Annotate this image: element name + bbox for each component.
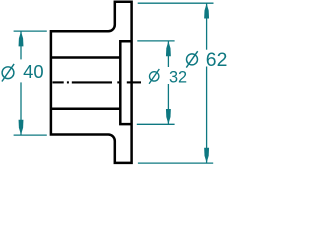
extension line bottom [137, 123, 175, 125]
extension line top [14, 30, 47, 32]
arrowhead Ø62 bottom [204, 148, 209, 163]
arrowhead Ø32 bottom [166, 109, 171, 124]
dimension line upper segment [167, 41, 169, 67]
arrowhead Ø62 top [204, 4, 209, 19]
dimension line lower segment [167, 84, 169, 124]
extension line top [137, 40, 174, 42]
extension line top [138, 2, 214, 4]
extension line bottom [14, 134, 47, 136]
arrowhead Ø32 top [166, 41, 171, 56]
arrowhead Ø40 top [19, 31, 24, 46]
dimension Ø32 [137, 41, 175, 124]
dimension line lower segment [20, 82, 22, 135]
label Ø62 [186, 51, 197, 67]
dimension line upper segment [206, 3, 208, 50]
label Ø40 [2, 64, 14, 82]
dimension line lower segment [206, 67, 208, 164]
svg-text:62: 62 [206, 49, 228, 71]
dimension Ø40 [14, 31, 47, 135]
svg-text:32: 32 [169, 68, 187, 86]
svg-text:40: 40 [23, 61, 43, 82]
label Ø32 [149, 69, 159, 84]
body and flange outline [51, 2, 132, 163]
centerline [53, 81, 142, 83]
dimension Ø62 [138, 3, 214, 163]
bore line lower [51, 108, 120, 111]
dimension line upper segment [20, 31, 22, 59]
arrowhead Ø40 bottom [19, 120, 24, 135]
counterbore recess Ø32 [120, 41, 131, 124]
bore line upper [51, 56, 120, 59]
extension line bottom [138, 162, 213, 164]
part outline (flanged bushing section) [51, 2, 132, 163]
